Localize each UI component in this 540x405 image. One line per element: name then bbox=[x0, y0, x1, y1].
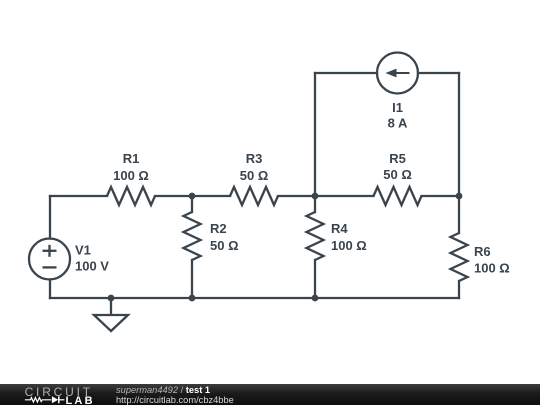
voltage source V1 bbox=[29, 239, 109, 280]
wire: R4 bottom stub bbox=[314, 260, 316, 298]
wire: R4 top stub bbox=[314, 196, 316, 212]
wire: top rail between R3 and R5 bbox=[278, 195, 374, 197]
resistor R5 bbox=[374, 151, 422, 205]
svg-text:100 Ω: 100 Ω bbox=[113, 168, 149, 183]
svg-text:50 Ω: 50 Ω bbox=[240, 168, 269, 183]
node D (ground junction) bbox=[108, 295, 115, 302]
svg-text:R5: R5 bbox=[389, 151, 406, 166]
CircuitLab logo symbol bbox=[24, 393, 94, 405]
wire: R6 bottom stub bbox=[458, 281, 460, 298]
wire: R6 top stub bbox=[458, 196, 460, 233]
resistor R3 bbox=[230, 151, 278, 205]
wire: V1 bottom lead bbox=[49, 280, 51, 299]
footer url text bbox=[116, 394, 234, 405]
svg-text:100 V: 100 V bbox=[75, 259, 109, 274]
svg-text:100 Ω: 100 Ω bbox=[331, 238, 367, 253]
footer bar bbox=[0, 384, 540, 405]
wire: node B up to I1 bbox=[314, 73, 316, 196]
resistor R2 bbox=[184, 212, 239, 260]
svg-text:I1: I1 bbox=[392, 100, 403, 115]
resistor R6 bbox=[451, 233, 510, 281]
svg-text:50 Ω: 50 Ω bbox=[210, 238, 239, 253]
wire: R2 bottom stub bbox=[191, 260, 193, 298]
svg-text:R1: R1 bbox=[123, 151, 140, 166]
wire: I1 right down to node C bbox=[458, 73, 460, 196]
svg-text:100 Ω: 100 Ω bbox=[474, 261, 510, 276]
wire: I1 right lead bbox=[418, 72, 459, 74]
svg-text:50 Ω: 50 Ω bbox=[383, 167, 412, 182]
footer title text bbox=[116, 384, 210, 395]
svg-text:R6: R6 bbox=[474, 244, 491, 259]
svg-text:8 A: 8 A bbox=[388, 116, 408, 131]
svg-text:R3: R3 bbox=[246, 151, 263, 166]
current source I1 bbox=[377, 53, 418, 131]
wire: top rail left segment bbox=[50, 195, 107, 197]
node B (R3/R5/R4/I1 junction) bbox=[312, 193, 319, 200]
resistor R1 bbox=[107, 151, 155, 205]
wire: bottom rail bbox=[50, 297, 459, 299]
node F (R4 bottom junction) bbox=[312, 295, 319, 302]
node C (R5/R6/I1 junction) bbox=[456, 193, 463, 200]
svg-text:V1: V1 bbox=[75, 243, 91, 258]
resistor R4 bbox=[307, 212, 367, 260]
node A (R1/R3/R2 junction) bbox=[189, 193, 196, 200]
wire: top rail between R1 and R3 bbox=[155, 195, 230, 197]
CircuitLab logo wordmark bbox=[25, 385, 93, 399]
wire: I1 left lead bbox=[315, 72, 377, 74]
node E (R2 bottom junction) bbox=[189, 295, 196, 302]
CircuitLab logo LAB text bbox=[66, 396, 95, 405]
wire: top rail right segment bbox=[422, 195, 460, 197]
wire: V1 top lead bbox=[49, 196, 51, 239]
svg-text:R4: R4 bbox=[331, 221, 348, 236]
wire: R2 top stub bbox=[191, 196, 193, 212]
ground bbox=[94, 298, 128, 331]
svg-text:R2: R2 bbox=[210, 221, 227, 236]
